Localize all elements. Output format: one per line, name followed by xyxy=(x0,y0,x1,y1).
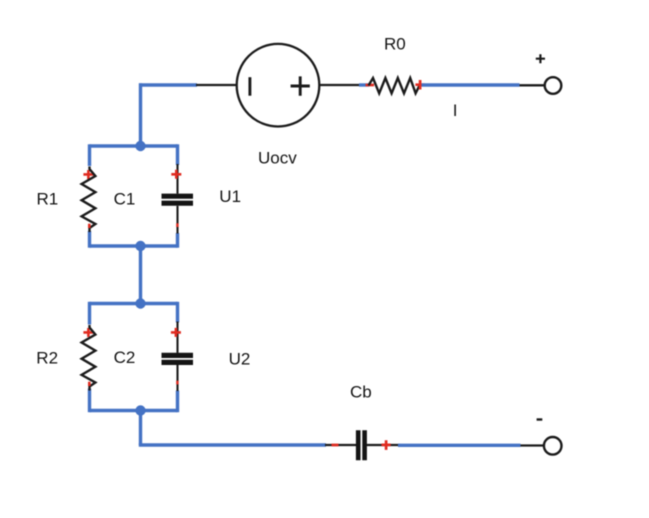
svg-text:U2: U2 xyxy=(229,350,251,369)
capacitor C1 bottom lead xyxy=(176,206,178,234)
capacitor C2 bottom lead xyxy=(176,365,178,391)
svg-text:C1: C1 xyxy=(114,190,136,209)
polarity minus of R2 (red tick) xyxy=(88,382,91,386)
wire lead source left (black) xyxy=(196,84,237,86)
wire bottom horizontal to Cb xyxy=(139,443,326,446)
polarity plus of R0 (red cross) xyxy=(415,80,424,90)
voltage source plus mark xyxy=(291,76,310,95)
wire down from node D xyxy=(139,411,142,446)
wire loop1 right upper xyxy=(176,144,179,165)
wire bus between loop1 and loop2 xyxy=(139,246,142,304)
wire loop1 left upper xyxy=(88,144,91,166)
capacitor Cb plates xyxy=(358,430,364,460)
capacitor C1 plates xyxy=(162,196,194,203)
wire lead to plus terminal (black) xyxy=(520,84,545,86)
junction node C (top of loop2) xyxy=(135,298,145,308)
polarity minus of C2 (red tick) xyxy=(176,381,178,385)
wire loop2 top xyxy=(90,302,178,305)
polarity minus of C1 (red tick) xyxy=(176,223,178,227)
polarity plus of R2 (red cross) xyxy=(83,328,93,337)
polarity minus of Cb (red dash) xyxy=(332,444,339,447)
wire lead source right (black) xyxy=(319,84,362,86)
voltage source U_ocv circle xyxy=(237,44,320,127)
label - of minus terminal xyxy=(537,418,543,420)
wire loop2 left upper xyxy=(88,302,91,325)
resistor R0 zigzag xyxy=(369,78,420,93)
svg-text:R1: R1 xyxy=(37,190,59,209)
polarity plus of C1 (red cross) xyxy=(171,170,181,179)
resistor R2 zigzag xyxy=(82,325,96,391)
wire loop2 right lower xyxy=(176,391,179,413)
capacitor Cb left lead xyxy=(325,444,356,446)
svg-text:Uocv: Uocv xyxy=(258,148,297,167)
terminal minus circle xyxy=(544,437,562,455)
voltage source minus bar xyxy=(248,77,251,96)
svg-text:R0: R0 xyxy=(384,35,406,54)
svg-text:R2: R2 xyxy=(36,348,58,367)
capacitor Cb right lead xyxy=(367,444,401,446)
polarity plus of Cb (red cross) xyxy=(382,440,391,450)
capacitor C2 top lead xyxy=(176,322,178,353)
wire blue Cb to minus terminal xyxy=(398,444,521,447)
svg-text:C2: C2 xyxy=(114,348,136,367)
junction node B (bottom of loop1) xyxy=(135,241,145,251)
wire loop2 left lower xyxy=(88,389,91,413)
terminal plus circle xyxy=(545,77,562,94)
wire lead to minus terminal (black) xyxy=(521,444,545,446)
capacitor C1 top lead xyxy=(176,164,178,194)
wire top-left vertical down to node A xyxy=(139,83,142,146)
svg-text:U1: U1 xyxy=(219,187,241,206)
capacitor C2 plates xyxy=(162,355,194,362)
wire loop1 top xyxy=(90,144,178,147)
junction node A (top of loop1) xyxy=(135,141,145,151)
wire loop1 bottom xyxy=(90,244,178,247)
resistor R1 zigzag xyxy=(82,167,96,233)
junction node D (bottom of loop2) xyxy=(135,405,145,415)
svg-text:Cb: Cb xyxy=(350,382,372,401)
wire loop1 right lower xyxy=(176,233,179,248)
wire blue R0 to plus terminal xyxy=(422,83,520,86)
polarity minus of R1 (red tick) xyxy=(88,224,91,228)
wire loop1 left lower xyxy=(88,231,91,248)
wire small blue at R0 left pin xyxy=(359,83,369,86)
wire top-left horizontal from source to bus xyxy=(139,83,197,86)
polarity minus of R0 (red dash) xyxy=(366,84,375,87)
polarity plus of R1 (red cross) xyxy=(83,170,93,179)
wire loop2 right upper xyxy=(176,302,179,323)
svg-text:I: I xyxy=(453,101,458,120)
wire loop2 bottom xyxy=(90,409,178,412)
polarity plus of C2 (red cross) xyxy=(171,328,181,337)
label + of plus terminal xyxy=(536,54,545,63)
